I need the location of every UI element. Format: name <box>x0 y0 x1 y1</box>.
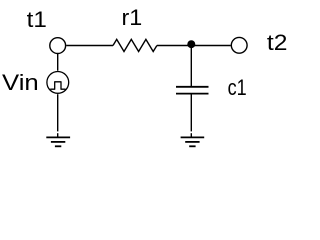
wire t1 to resistor <box>66 45 113 47</box>
wire junction down to capacitor <box>190 45 192 87</box>
ground pin stub (capacitor) <box>190 133 192 137</box>
capacitor c1 <box>176 87 209 94</box>
svg-text:c1: c1 <box>228 77 247 101</box>
junction node dot <box>187 40 195 48</box>
svg-text:t2: t2 <box>267 30 288 54</box>
pulse waveform symbol <box>50 82 65 89</box>
terminal t2 <box>231 37 247 53</box>
svg-text:r1: r1 <box>122 5 143 30</box>
pulse source Vin <box>47 72 69 94</box>
wire capacitor down to ground <box>190 94 192 132</box>
svg-text:Vin: Vin <box>2 71 39 96</box>
ground pin stub (Vin) <box>57 133 59 137</box>
ground under capacitor <box>181 137 205 146</box>
resistor r1 <box>113 39 157 51</box>
wire resistor to t2 <box>157 45 231 47</box>
terminal t1 <box>50 38 66 54</box>
ground under Vin <box>46 137 70 146</box>
wire Vin down to ground <box>57 94 59 131</box>
svg-text:t1: t1 <box>27 7 47 32</box>
wire t1 down to Vin <box>57 54 59 71</box>
